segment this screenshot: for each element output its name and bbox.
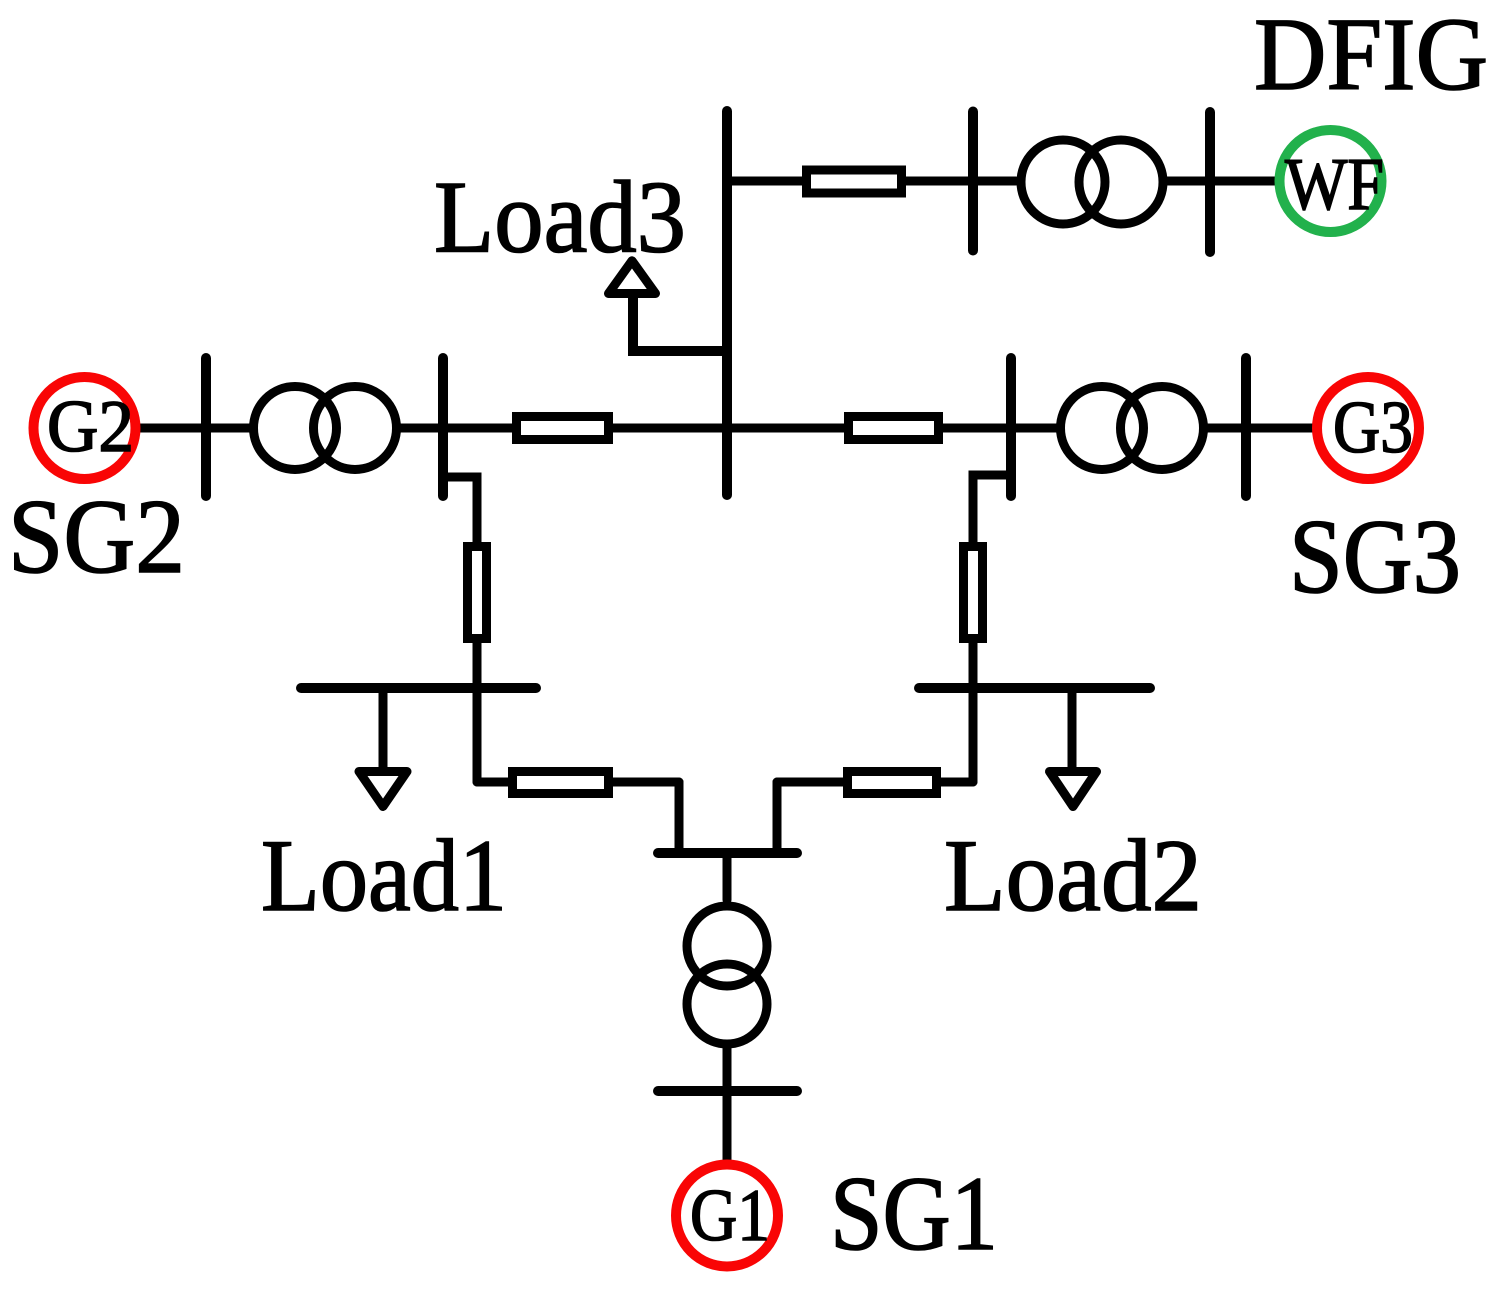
wire Load2 bus through line L17	[777, 778, 973, 787]
bus 5a (wind line bus)	[968, 112, 978, 251]
bus 3 (central HV bus)	[722, 111, 732, 495]
wire bus 1H to transformer T1	[723, 853, 732, 900]
wire G2 to transformer T2	[135, 424, 250, 433]
transformer T2 (G2 step-up)	[254, 387, 337, 470]
transformer T4 (WF step-up)	[1021, 140, 1105, 224]
svg-text:WF: WF	[1285, 144, 1384, 226]
svg-text:Load3: Load3	[434, 161, 686, 275]
bus 4H (G3 HV bus)	[1006, 358, 1016, 496]
wire bus 4H stub down to line L47	[973, 475, 1011, 544]
wire Load3 stem to bus 3	[633, 294, 727, 351]
wire L26 to Load1 bus	[473, 641, 482, 782]
svg-text:G2: G2	[47, 386, 134, 468]
wire L16 drop to bus 1H	[675, 782, 684, 853]
line L34 (bus3 - bus4H)	[849, 417, 939, 440]
svg-text:G3: G3	[1333, 387, 1413, 469]
wire bus 1L to G1	[723, 1091, 732, 1165]
wire bus B to WF	[1167, 177, 1282, 186]
bus 6 (Load1 bus)	[301, 683, 536, 693]
bus 1H (G1 HV bus)	[658, 848, 797, 858]
wire bus 2H stub down to line L26	[443, 477, 477, 544]
svg-text:SG3: SG3	[1289, 498, 1461, 615]
svg-text:G1: G1	[690, 1175, 770, 1257]
bus 4L (G3 terminal bus)	[1241, 358, 1251, 496]
line L47 (bus4H - Load2 bus)	[964, 547, 983, 639]
line L16 (Load1 bus - bus1H)	[513, 772, 609, 794]
Load2 arrow stem	[1068, 688, 1077, 770]
line L17 (Load2 bus - bus1H)	[848, 772, 937, 794]
svg-text:SG1: SG1	[830, 1155, 998, 1272]
generator G1 (red circle)	[676, 1165, 778, 1267]
bus 2L (G2 terminal bus)	[201, 358, 211, 496]
wire T3 through bus 4L to G3	[1207, 424, 1322, 433]
transformer T3 (G3 step-up)	[1061, 387, 1144, 470]
Load1 arrow head	[359, 772, 407, 807]
svg-text:Load1: Load1	[261, 819, 507, 933]
wire L47 to Load2 bus	[969, 641, 978, 782]
wind farm WF (green circle)	[1280, 130, 1382, 232]
generator G2 (red circle)	[34, 377, 136, 479]
wire Load1 bus through line L16	[477, 778, 679, 787]
wire L17 drop to bus 1H	[773, 782, 782, 853]
Load1 arrow stem	[379, 688, 388, 770]
line L23 (bus2H - bus3)	[517, 417, 609, 440]
generator G3 (red circle)	[1317, 377, 1419, 479]
bus 5b (WF terminal bus)	[1205, 112, 1215, 252]
svg-text:SG2: SG2	[8, 478, 185, 595]
wire T1 to bus 1L	[723, 1048, 732, 1091]
Load3 arrow head	[609, 261, 656, 294]
svg-text:Load2: Load2	[944, 819, 1202, 933]
bus 2H (G2 HV bus)	[438, 358, 448, 496]
wire T2 through bus 2H and bus 3 to T3	[400, 424, 1057, 433]
transformer T1 (G1 step-up)	[687, 906, 767, 986]
line L26 (bus2H - Load1 bus)	[468, 547, 487, 639]
bus 7 (Load2 bus)	[919, 683, 1150, 693]
line L37 (bus3 - wind bus)	[807, 170, 902, 193]
Load2 arrow head	[1050, 772, 1097, 807]
svg-text:DFIG: DFIG	[1254, 0, 1488, 112]
bus 1L (G1 terminal bus)	[658, 1086, 797, 1096]
wire bus3 to line L37 to bus A	[727, 177, 1016, 186]
